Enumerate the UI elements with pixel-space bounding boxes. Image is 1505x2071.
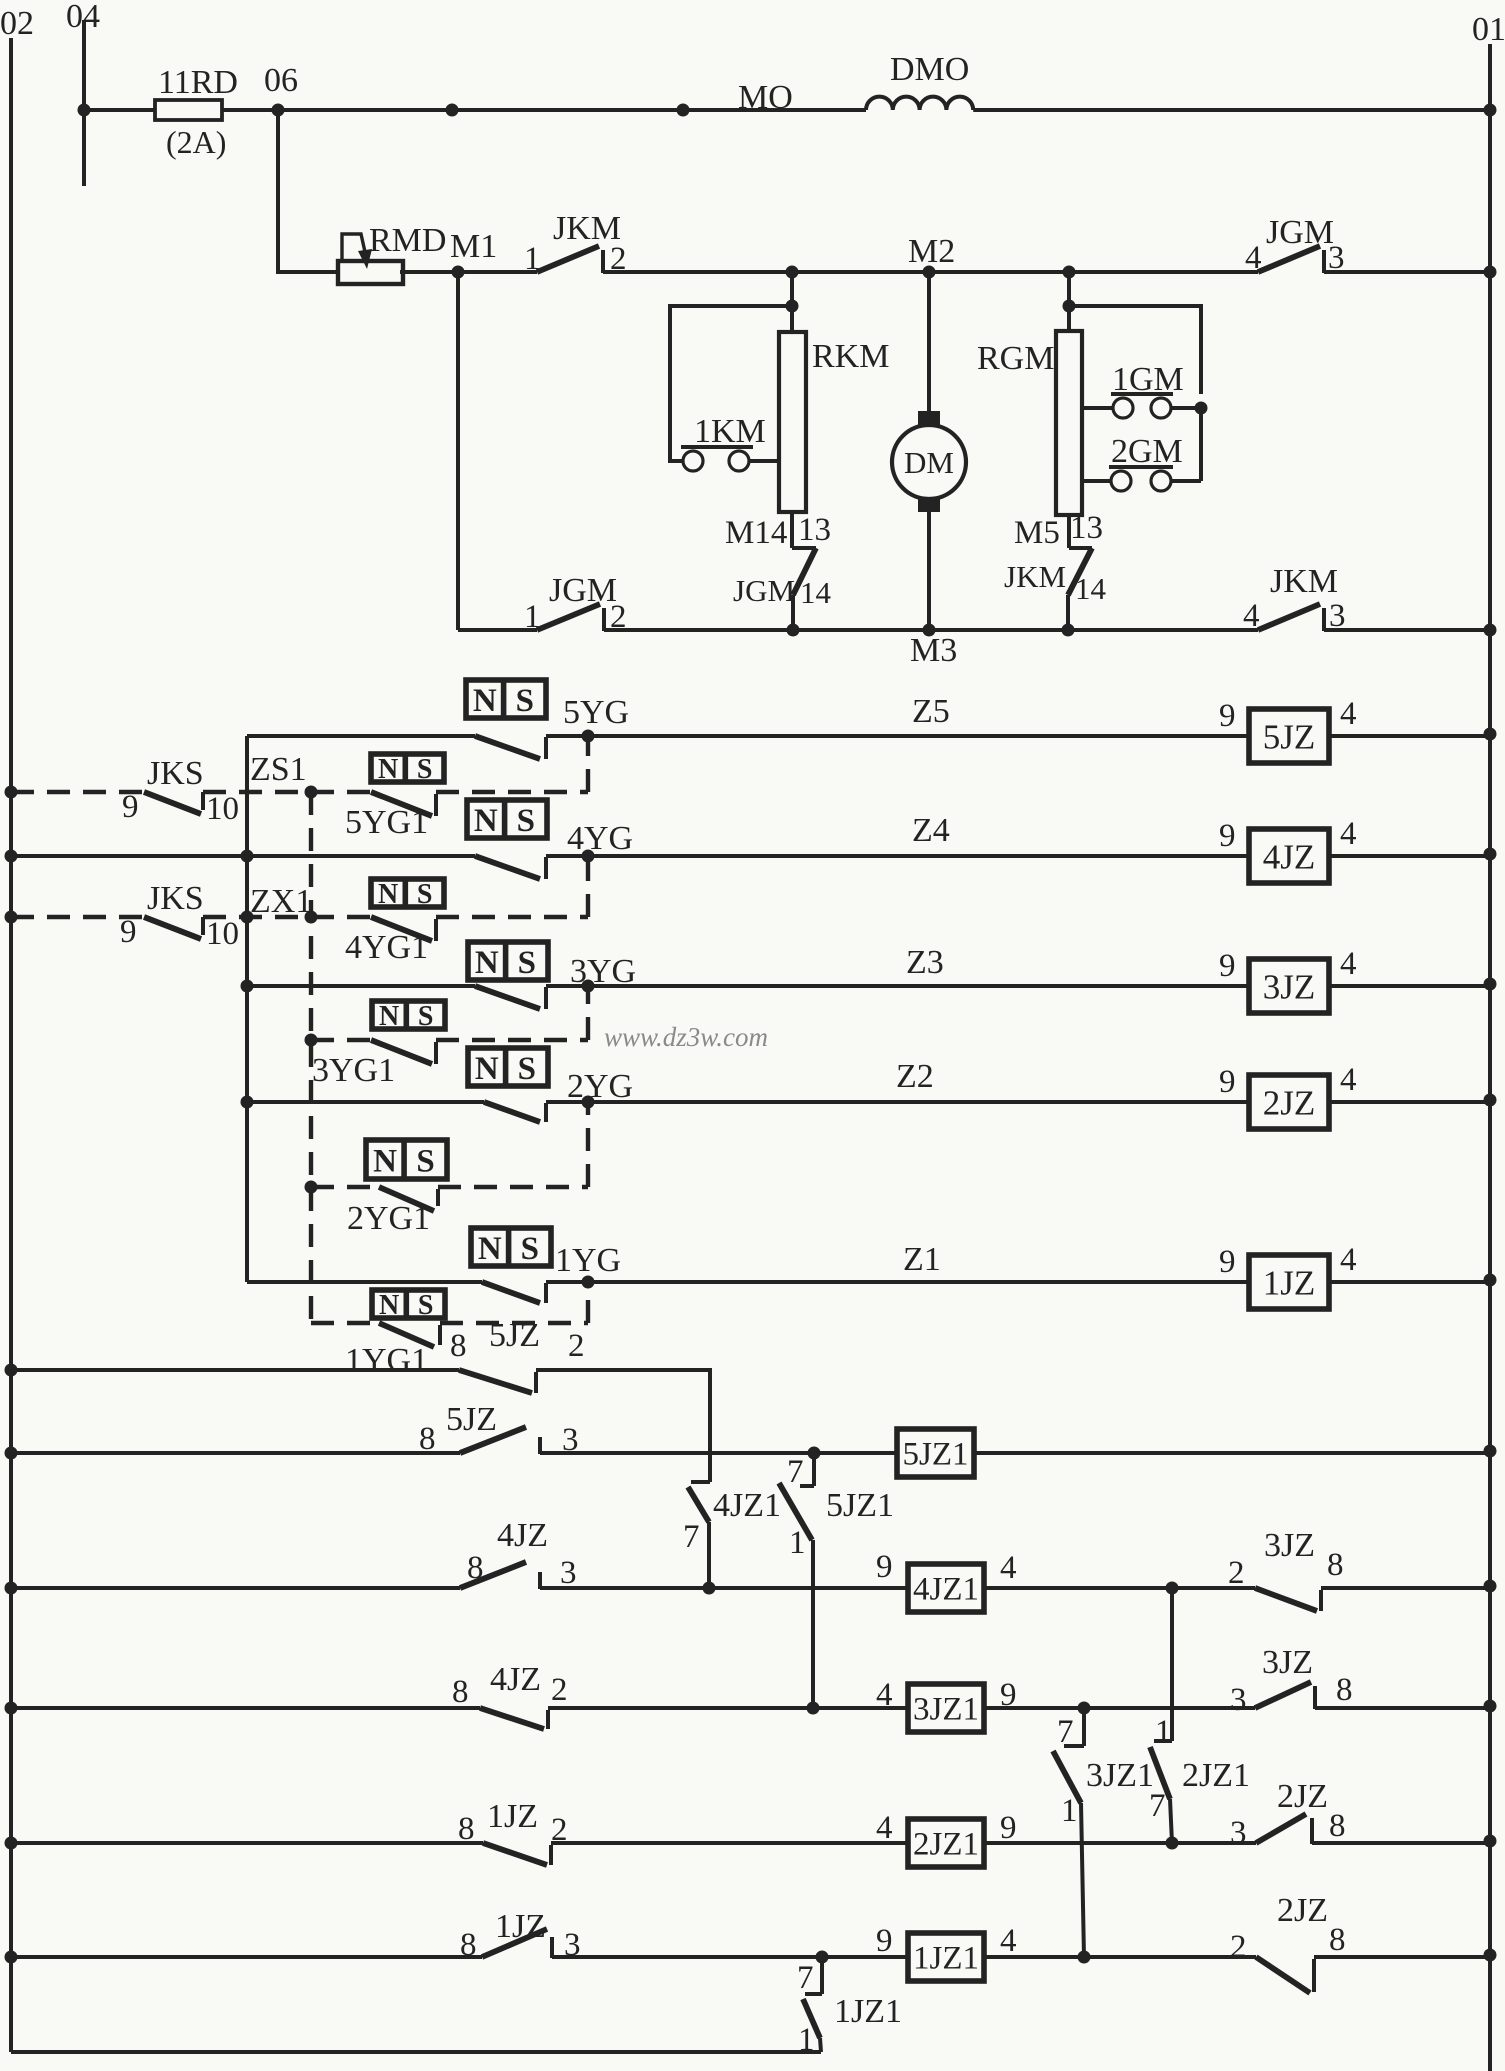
contact 3JZ1 7-1 <box>1082 1708 1086 1746</box>
svg-text:JGM: JGM <box>733 573 795 608</box>
junction row2/01 rail <box>1484 266 1497 279</box>
svg-text:S: S <box>417 879 433 910</box>
svg-text:5JZ1: 5JZ1 <box>826 1487 894 1524</box>
wire RMD to M1 <box>400 270 537 274</box>
junction rail/ZX1 <box>5 911 18 924</box>
junction Z1/01 rail <box>1484 1274 1497 1287</box>
svg-text:4: 4 <box>1000 1923 1017 1959</box>
junction rowD/01 rail <box>1484 1700 1497 1713</box>
svg-text:14: 14 <box>800 575 832 610</box>
wire top row right <box>973 108 1490 112</box>
contact 1JZ1 7-1 <box>820 1957 824 1994</box>
svg-text:S: S <box>518 1051 536 1087</box>
svg-text:2: 2 <box>551 1672 568 1708</box>
wire JGM3 to rail <box>1324 270 1490 274</box>
wire RKM bottom / pin 13 <box>790 512 794 548</box>
svg-text:5YG: 5YG <box>563 694 629 731</box>
rheostat RMD <box>338 261 403 284</box>
svg-text:N: N <box>379 1290 399 1321</box>
junction rail/rowC <box>5 1582 18 1595</box>
wire rowD mid <box>548 1706 908 1710</box>
junction 3YG/bypass <box>546 984 588 988</box>
svg-text:M3: M3 <box>910 632 957 669</box>
svg-text:3JZ: 3JZ <box>1263 967 1316 1006</box>
junction rail/ZS1 <box>5 786 18 799</box>
junction rail/rowE <box>5 1837 18 1850</box>
junction 3YG1/dashed vertical <box>305 1034 318 1047</box>
wire rowC right <box>1321 1586 1490 1590</box>
svg-text:1: 1 <box>789 1525 806 1561</box>
wire rowC left <box>11 1586 460 1590</box>
svg-text:S: S <box>518 945 536 981</box>
svg-text:1JZ: 1JZ <box>1263 1263 1316 1302</box>
svg-text:8: 8 <box>460 1927 477 1963</box>
wire row3 mid <box>604 628 1258 632</box>
wire rowC mid <box>540 1586 908 1590</box>
junction RGM column top <box>1063 266 1076 279</box>
svg-text:8: 8 <box>419 1421 436 1457</box>
svg-text:9: 9 <box>1219 698 1236 734</box>
svg-text:JGM: JGM <box>1266 214 1334 251</box>
svg-text:2: 2 <box>1230 1929 1247 1965</box>
svg-text:(2A): (2A) <box>166 124 226 160</box>
wire rowD right <box>1315 1706 1490 1710</box>
svg-text:N: N <box>478 1231 502 1267</box>
wire ZS1 dashed left <box>11 790 144 794</box>
svg-text:06: 06 <box>264 62 298 99</box>
svg-text:Z3: Z3 <box>906 944 944 981</box>
resistor RGM <box>1056 331 1082 515</box>
svg-text:2JZ: 2JZ <box>1277 1892 1328 1929</box>
switch 1YG <box>482 1282 540 1303</box>
wire ZS1 dashed right <box>436 790 588 794</box>
junction 3JZ1/rowF <box>1078 1951 1091 1964</box>
wire ZX1 up to 4YG <box>586 856 590 917</box>
svg-text:3JZ1: 3JZ1 <box>1086 1757 1154 1794</box>
wire top row left <box>84 108 155 112</box>
wire rowF left <box>11 1955 482 1959</box>
junction 04/top wire <box>78 104 91 117</box>
wire GM loop side <box>1199 408 1203 481</box>
svg-text:2GM: 2GM <box>1111 433 1183 470</box>
svg-text:2JZ1: 2JZ1 <box>913 1827 979 1863</box>
wire rowE left <box>11 1841 483 1845</box>
svg-text:Z5: Z5 <box>912 693 950 730</box>
junction 2JZ1/rowE <box>1166 1837 1179 1850</box>
wire RGM bottom / pin 13 <box>1067 515 1071 548</box>
junction rowC/01 rail <box>1484 1580 1497 1593</box>
svg-text:4JZ: 4JZ <box>497 1517 548 1554</box>
svg-text:DM: DM <box>904 445 954 480</box>
junction 5JZ1 branch <box>808 1447 821 1460</box>
switch JGM 13-14 <box>792 546 816 550</box>
svg-text:9: 9 <box>120 914 137 950</box>
svg-text:8: 8 <box>1327 1547 1344 1583</box>
junction 2YG/common vertical <box>241 1096 254 1109</box>
wire JGM14 to row3 <box>791 595 795 630</box>
svg-text:M1: M1 <box>450 228 497 265</box>
svg-text:JKS: JKS <box>147 755 204 792</box>
svg-text:14: 14 <box>1075 571 1107 606</box>
wire M1 column <box>456 272 460 630</box>
svg-text:3JZ: 3JZ <box>1262 1644 1313 1681</box>
svg-text:1: 1 <box>1155 1714 1172 1750</box>
magnet 4YG <box>467 800 547 838</box>
svg-text:N: N <box>474 803 498 839</box>
wire Z4 right <box>1329 854 1490 858</box>
svg-text:3JZ: 3JZ <box>1264 1527 1315 1564</box>
svg-text:DMO: DMO <box>890 51 969 88</box>
wire rowA right <box>536 1370 710 1482</box>
svg-text:9: 9 <box>876 1549 893 1585</box>
wire 3YG1 dashed right <box>436 1038 588 1042</box>
svg-text:M14: M14 <box>725 515 787 551</box>
svg-text:4: 4 <box>1000 1550 1017 1586</box>
svg-text:4: 4 <box>876 1810 893 1846</box>
node 01 right supply rail <box>1488 44 1492 2071</box>
svg-text:11RD: 11RD <box>158 64 238 101</box>
junction 3YG/common vertical <box>241 980 254 993</box>
svg-text:RKM: RKM <box>812 338 889 375</box>
svg-text:2JZ: 2JZ <box>1277 1778 1328 1815</box>
junction 4JZ1/rowC <box>703 1582 716 1595</box>
svg-text:7: 7 <box>797 1960 814 1996</box>
svg-text:www.dz3w.com: www.dz3w.com <box>604 1022 768 1052</box>
svg-text:3JZ1: 3JZ1 <box>913 1692 979 1728</box>
svg-text:S: S <box>517 803 535 839</box>
wire rowB left <box>11 1451 460 1455</box>
svg-text:1YG1: 1YG1 <box>345 1342 428 1379</box>
node 04 branch <box>82 20 86 186</box>
svg-text:8: 8 <box>1329 1922 1346 1958</box>
svg-text:N: N <box>475 945 499 981</box>
svg-text:1JZ: 1JZ <box>487 1798 538 1835</box>
svg-text:4JZ1: 4JZ1 <box>713 1487 781 1524</box>
contact 2JZ1 1-7 <box>1170 1588 1174 1741</box>
wire ZX1 dashed left <box>11 915 144 919</box>
junction Z3/01 rail <box>1484 978 1497 991</box>
svg-text:S: S <box>417 754 433 785</box>
wire JKM14 to row3 <box>1066 595 1070 630</box>
svg-text:2: 2 <box>1228 1555 1245 1591</box>
wire Z1 right <box>1329 1280 1490 1284</box>
wire 1YG1 dashed right <box>440 1321 588 1325</box>
wire 3JZ1 to rowF <box>1081 1803 1084 1957</box>
junction 2JZ1 branch <box>1166 1582 1179 1595</box>
motor DM <box>918 411 940 425</box>
wire motor top <box>927 272 931 412</box>
wire rowF mid2 <box>984 1955 1256 1959</box>
svg-text:9: 9 <box>1219 948 1236 984</box>
svg-text:Z4: Z4 <box>912 812 950 849</box>
wire row3 left <box>458 628 537 632</box>
wire motor bottom <box>927 512 931 630</box>
svg-text:4JZ: 4JZ <box>490 1661 541 1698</box>
wire ZS1 up to 5YG <box>586 736 590 792</box>
wire M2 row <box>603 270 1258 274</box>
svg-text:13: 13 <box>1070 510 1103 546</box>
junction 1JZ1 branch <box>816 1951 829 1964</box>
svg-text:4: 4 <box>1340 696 1357 732</box>
wire Z3 right <box>1329 984 1490 988</box>
junction rail/rowA <box>5 1364 18 1377</box>
junction rowB/01 rail <box>1484 1445 1497 1458</box>
svg-text:5JZ: 5JZ <box>1263 717 1316 756</box>
svg-text:RMD: RMD <box>369 222 446 259</box>
svg-text:9: 9 <box>1219 1244 1236 1280</box>
svg-text:N: N <box>473 683 497 719</box>
svg-text:2JZ1: 2JZ1 <box>1182 1757 1250 1794</box>
svg-text:ZX1: ZX1 <box>250 883 312 920</box>
magnet 5YG <box>466 680 546 718</box>
wire 1YG1 up to 1YG <box>586 1282 590 1323</box>
svg-text:N: N <box>373 1143 397 1179</box>
junction row3/01 rail <box>1484 624 1497 637</box>
wire rowD mid2 <box>984 1706 1255 1710</box>
wire RGM column <box>1067 272 1071 331</box>
wire rowA left <box>11 1368 459 1372</box>
switch 2YG <box>247 1100 484 1104</box>
svg-text:M5: M5 <box>1014 515 1060 551</box>
svg-text:1KM: 1KM <box>694 413 766 450</box>
svg-text:3YG1: 3YG1 <box>312 1052 395 1089</box>
wire Z5 right <box>1329 734 1490 738</box>
svg-text:RGM: RGM <box>977 340 1054 377</box>
svg-text:1YG: 1YG <box>555 1242 621 1279</box>
svg-text:S: S <box>418 1290 434 1321</box>
svg-text:S: S <box>516 683 534 719</box>
wire ZX1 dashed right <box>436 915 588 919</box>
junction rail/rowD <box>5 1702 18 1715</box>
svg-text:4: 4 <box>1243 598 1260 634</box>
svg-text:8: 8 <box>1336 1672 1353 1708</box>
wire YG1 dashed vertical <box>309 792 313 1323</box>
junction rail/rowF <box>5 1951 18 1964</box>
svg-text:13: 13 <box>798 512 831 548</box>
junction Z2/01 rail <box>1484 1094 1497 1107</box>
switch 4YG <box>475 856 540 879</box>
svg-text:S: S <box>418 1001 434 1032</box>
svg-text:Z1: Z1 <box>903 1241 941 1278</box>
magnet 3YG1 <box>372 1001 445 1029</box>
junction RKM column top <box>786 266 799 279</box>
junction Z4/01 rail <box>1484 848 1497 861</box>
wire bottom bus <box>11 2050 821 2054</box>
junction rowF/01 rail <box>1484 1949 1497 1962</box>
magnet 1YG1 <box>372 1290 445 1318</box>
switch JKM 13-14 <box>1069 546 1092 550</box>
svg-text:9: 9 <box>876 1923 893 1959</box>
svg-text:5JZ: 5JZ <box>489 1317 540 1354</box>
junction 3JZ1 branch <box>1078 1702 1091 1715</box>
junction 1YG/bypass <box>546 1280 588 1284</box>
relay 5JZ1 <box>897 1429 974 1477</box>
svg-text:8: 8 <box>450 1328 467 1364</box>
svg-text:9: 9 <box>122 789 139 825</box>
svg-text:8: 8 <box>452 1674 469 1710</box>
wire YG common vertical <box>245 736 249 1282</box>
wire 5JZ1 to rowD <box>811 1540 815 1708</box>
magnet 2YG1 <box>366 1140 447 1179</box>
svg-text:9: 9 <box>1219 818 1236 854</box>
junction 2YG/bypass <box>546 1100 588 1104</box>
junction M3 <box>923 624 936 637</box>
svg-text:4: 4 <box>1340 1062 1357 1098</box>
junction GM loop <box>1195 402 1208 415</box>
wire 2YG1 dashed right <box>438 1185 588 1189</box>
svg-text:10: 10 <box>206 916 239 952</box>
switch 3YG <box>247 984 475 988</box>
wire rowE right <box>1312 1841 1490 1845</box>
junction ZX1/common vertical <box>241 911 254 924</box>
junction row3 b <box>1062 624 1075 637</box>
wire rowD left <box>11 1706 480 1710</box>
svg-text:01: 01 <box>1472 11 1505 48</box>
wire 4JZ1 to rowC <box>707 1522 711 1588</box>
svg-text:8: 8 <box>1329 1808 1346 1844</box>
magnet 1YG <box>471 1228 551 1266</box>
svg-text:02: 02 <box>0 5 34 42</box>
svg-text:3: 3 <box>1230 1815 1247 1851</box>
svg-text:S: S <box>416 1143 434 1179</box>
fuse 11RD (2A) <box>155 100 222 120</box>
svg-text:9: 9 <box>1000 1810 1017 1846</box>
svg-text:S: S <box>521 1231 539 1267</box>
svg-text:4: 4 <box>1340 946 1357 982</box>
junction rail/4YG row <box>5 850 18 863</box>
svg-text:N: N <box>378 754 398 785</box>
junction ZX1/dashed vertical <box>305 911 318 924</box>
junction top wire a <box>446 104 459 117</box>
contact 4JZ1 7 <box>691 1480 710 1484</box>
resistor RKM <box>779 332 806 512</box>
wire 1KM to RKM <box>749 459 779 463</box>
wire node 06 drop <box>278 110 337 272</box>
wire Z2 right <box>1329 1100 1490 1104</box>
junction 5JZ1/rowD <box>807 1702 820 1715</box>
svg-text:1: 1 <box>1061 1793 1078 1829</box>
wire rowB right <box>974 1451 1490 1455</box>
svg-text:MO: MO <box>738 79 793 116</box>
wire 1YG row left <box>247 1280 482 1284</box>
wire 3YG1 up to 3YG <box>586 986 590 1040</box>
svg-text:1JZ1: 1JZ1 <box>834 1993 902 2030</box>
magnet 4YG1 <box>371 879 444 907</box>
svg-text:4JZ1: 4JZ1 <box>913 1572 979 1608</box>
wire rowE mid <box>551 1841 908 1845</box>
svg-text:9: 9 <box>1219 1064 1236 1100</box>
wire rowB mid <box>540 1451 897 1455</box>
wire top row to inductor <box>222 108 866 112</box>
svg-text:10: 10 <box>206 791 239 827</box>
junction top/01 rail <box>1484 104 1497 117</box>
junction 5YG/bypass <box>546 734 588 738</box>
svg-text:1JZ1: 1JZ1 <box>913 1941 979 1977</box>
svg-text:JKM: JKM <box>1270 563 1338 600</box>
svg-text:Z2: Z2 <box>896 1058 934 1095</box>
svg-text:8: 8 <box>458 1811 475 1847</box>
svg-text:04: 04 <box>66 0 100 35</box>
svg-text:M2: M2 <box>908 233 955 270</box>
junction 2YG1/dashed vertical <box>305 1181 318 1194</box>
svg-text:3: 3 <box>1230 1682 1247 1718</box>
junction Z5/01 rail <box>1484 728 1497 741</box>
wire 2JZ1 to rowE <box>1170 1799 1172 1843</box>
junction rowE/01 rail <box>1484 1835 1497 1848</box>
wire 1JZ1 to bottom bus <box>820 2038 821 2052</box>
wire rowE mid2 <box>984 1841 1256 1845</box>
svg-text:2YG: 2YG <box>567 1068 633 1105</box>
svg-text:N: N <box>475 1051 499 1087</box>
svg-text:5JZ1: 5JZ1 <box>903 1437 969 1473</box>
wire 1KM loop <box>670 306 792 461</box>
svg-text:4JZ: 4JZ <box>1263 837 1316 876</box>
svg-text:5JZ: 5JZ <box>446 1401 497 1438</box>
svg-text:2JZ: 2JZ <box>1263 1083 1316 1122</box>
junction 4YG/common vertical <box>241 850 254 863</box>
svg-text:JKS: JKS <box>147 880 204 917</box>
junction rail/rowB <box>5 1447 18 1460</box>
svg-text:ZS1: ZS1 <box>250 751 307 788</box>
wire rowF mid <box>552 1955 908 1959</box>
junction ZS1/dashed vertical <box>305 786 318 799</box>
magnet 5YG1 <box>371 754 444 782</box>
svg-text:JGM: JGM <box>549 572 617 609</box>
junction GM tap <box>1063 300 1076 313</box>
svg-text:N: N <box>379 1001 399 1032</box>
svg-text:4YG: 4YG <box>567 820 633 857</box>
switch 5YG <box>247 734 475 738</box>
junction top wire b <box>677 104 690 117</box>
svg-text:7: 7 <box>683 1519 700 1555</box>
magnet 3YG <box>468 942 548 980</box>
wire 4YG row left <box>11 854 475 858</box>
inductor DMO <box>866 97 973 110</box>
wire RKM column <box>790 272 794 332</box>
svg-text:JKM: JKM <box>1004 559 1066 594</box>
junction 1KM tap <box>786 300 799 313</box>
wire row3 right <box>1324 628 1490 632</box>
svg-text:N: N <box>378 879 398 910</box>
svg-text:2: 2 <box>568 1328 585 1364</box>
wire 2YG1 up to 2YG <box>586 1102 590 1187</box>
junction row3 a <box>787 624 800 637</box>
svg-text:4: 4 <box>1340 816 1357 852</box>
wire rowC mid2 <box>984 1586 1255 1590</box>
junction 4YG/bypass <box>546 854 588 858</box>
magnet 2YG <box>468 1048 548 1086</box>
node 02 left supply rail <box>9 38 13 2052</box>
wire GM loop top <box>1069 306 1201 394</box>
junction top wire <box>272 104 285 117</box>
svg-text:4: 4 <box>876 1677 893 1713</box>
wire rowF right <box>1314 1955 1490 1959</box>
svg-text:4: 4 <box>1340 1242 1357 1278</box>
svg-text:3: 3 <box>560 1555 577 1591</box>
